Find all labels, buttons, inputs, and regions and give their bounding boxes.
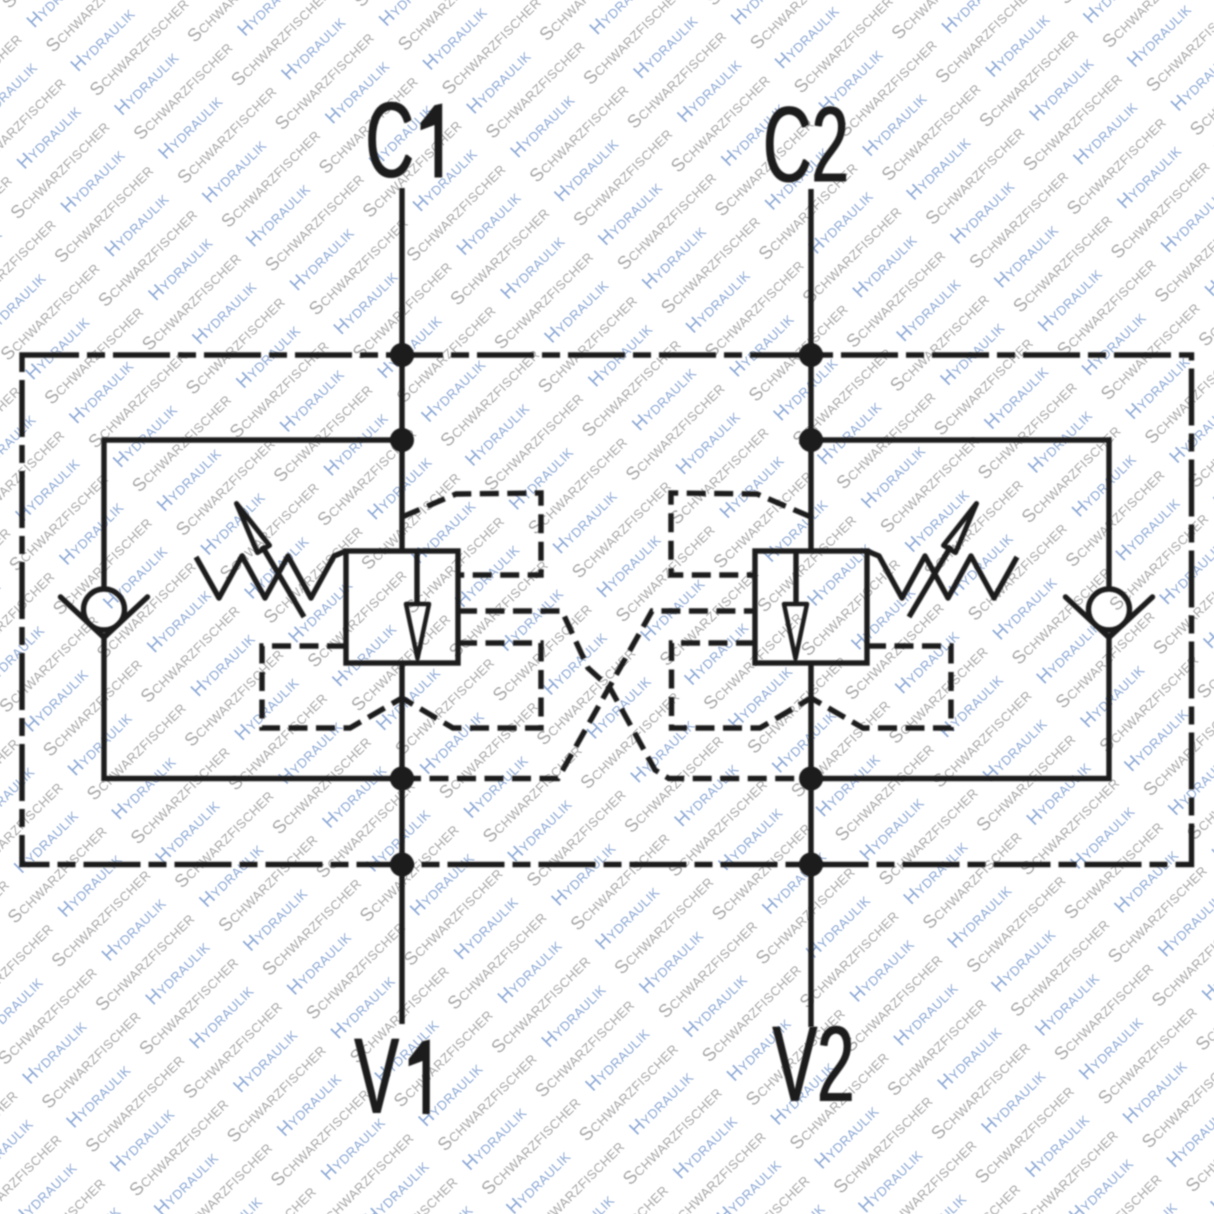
pilot line right valve lower-right loop <box>811 646 951 728</box>
pilot line left valve upper loop <box>402 493 541 575</box>
adjustment arrow left: head <box>237 504 270 553</box>
port label V1 <box>354 1017 400 1137</box>
svg-text:V2: V2 <box>773 1005 855 1125</box>
junction C1 branch bottom <box>390 767 414 791</box>
wire C2 vertical <box>808 189 813 1027</box>
svg-text:C: C <box>366 81 414 201</box>
port label C1 <box>365 81 415 201</box>
junction C1 x boundary bottom <box>390 853 414 877</box>
adjustment arrow right: shaft <box>909 546 951 617</box>
junction C2 branch top <box>799 428 823 452</box>
pilot line right valve upper loop <box>671 493 811 575</box>
spring left (adjustable) <box>196 551 346 598</box>
counterbalance valve right: flow arrow <box>784 604 807 659</box>
pilot line cross B (C1 junction to right valve) <box>402 611 754 779</box>
junction C2 x boundary bottom <box>799 853 823 877</box>
valve assembly boundary (dash-dot box) <box>22 355 1192 865</box>
svg-text:C2: C2 <box>764 85 850 205</box>
adjustment arrow right: head <box>944 504 977 553</box>
junction C1 x boundary top <box>390 343 414 367</box>
pilot line left valve lower-left loop <box>262 646 402 728</box>
check valve right: ball <box>1089 589 1130 630</box>
junction C1 branch top <box>390 428 414 452</box>
wire right branch bottom horizontal <box>811 633 1109 779</box>
counterbalance valve left: flow arrow <box>406 604 429 659</box>
counterbalance valve left: body <box>346 551 458 663</box>
wire left branch bottom horizontal <box>104 633 402 779</box>
wire C1 vertical <box>399 188 404 1024</box>
junction C2 branch bottom <box>799 767 823 791</box>
counterbalance valve right: internal passage <box>793 551 798 604</box>
counterbalance valve right: body <box>755 551 867 663</box>
check valve left: seat <box>61 597 148 638</box>
port label C2 <box>763 85 850 205</box>
spring right (adjustable) <box>867 551 1017 598</box>
pilot line cross A (left valve to V2 side) <box>458 611 811 779</box>
wire left branch top horizontal <box>104 440 402 589</box>
port label V2 <box>772 1005 855 1125</box>
counterbalance valve left: internal passage <box>414 551 419 604</box>
check valve right: seat <box>1066 597 1153 638</box>
adjustment arrow left: shaft <box>262 546 304 617</box>
check valve left: ball <box>84 589 125 630</box>
pilot line right valve lower-left loop <box>672 643 812 728</box>
junction C2 x boundary top <box>799 343 823 367</box>
pilot line left valve lower-right loop <box>402 643 541 728</box>
svg-text:V: V <box>355 1017 400 1137</box>
wire right branch top horizontal <box>811 440 1109 589</box>
